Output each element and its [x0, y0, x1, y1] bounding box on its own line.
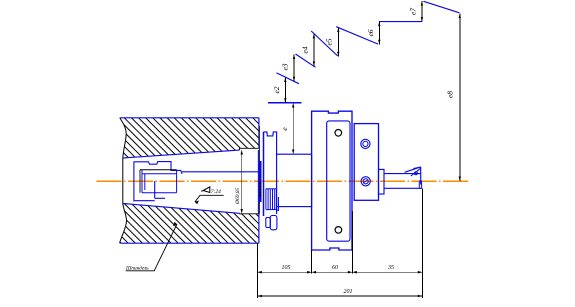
- shank inner top line with relief groove: [134, 162, 182, 174]
- taper 7:24 callout: [195, 187, 224, 204]
- diagonal step 4: [336, 27, 378, 44]
- extension line flange right: [351, 211, 353, 274]
- extension line shaft tip: [421, 189, 423, 299]
- main flange disk: [312, 111, 352, 250]
- cutter insert top edge: [413, 167, 420, 168]
- dimension total height: [446, 14, 461, 182]
- svg-text:7:24: 7:24: [211, 188, 221, 195]
- cutter insert hypotenuse: [411, 168, 421, 176]
- screw lower inner: [363, 179, 368, 184]
- drawbar lower step: [155, 197, 165, 199]
- housing top edge: [120, 117, 259, 119]
- bore step lower: [240, 212, 259, 215]
- screw upper inner: [363, 141, 368, 146]
- drawbar nut ribs: [266, 189, 277, 210]
- drawbar head bottom edge: [142, 192, 177, 194]
- drawbar head inner line: [142, 173, 177, 175]
- svg-text:35: 35: [387, 265, 394, 271]
- shaft bottom line: [384, 187, 421, 189]
- holder flange top face with V-groove: [264, 132, 277, 155]
- svg-text:60: 60: [332, 265, 338, 271]
- drawbar lower vertical: [154, 181, 156, 198]
- drawbar head inner vertical: [144, 174, 146, 190]
- drawbar head left edge: [139, 170, 141, 193]
- svg-text:e5: e5: [324, 38, 333, 45]
- svg-text:e7: e7: [409, 8, 418, 15]
- gauge diameter dimension: [235, 150, 243, 214]
- contact face thin line: [257, 150, 259, 214]
- dimension e5: [324, 28, 339, 57]
- holder flange left edge: [263, 132, 265, 216]
- centerline axis: [97, 180, 470, 182]
- chain dimension line: [257, 271, 422, 274]
- diagonal step 2: [296, 54, 316, 67]
- svg-text:e8: e8: [446, 91, 455, 98]
- dimension e: [280, 103, 294, 154]
- diagonal step 5: [424, 1, 460, 13]
- housing face line behind tool: [258, 126, 260, 214]
- dimension e4: [301, 34, 316, 66]
- tool shank end face: [133, 162, 135, 202]
- housing bottom edge: [120, 242, 259, 244]
- extension line housing face: [256, 244, 258, 299]
- dimension e3: [281, 55, 296, 82]
- flange face plate: [327, 121, 350, 241]
- drawbar stem top line: [182, 171, 259, 173]
- lower bore taper line: [122, 203, 239, 213]
- svg-text:e2: e2: [272, 86, 281, 93]
- svg-text:e3: e3: [281, 63, 290, 70]
- staircase baseline: [268, 102, 302, 104]
- cutter top diagonal: [405, 167, 421, 172]
- dimension e2: [272, 78, 287, 103]
- bore step upper: [240, 148, 259, 150]
- bolt hole upper: [335, 130, 342, 137]
- drawbar head left inner edge: [141, 170, 143, 193]
- shank inner bottom line: [134, 200, 155, 202]
- diagonal step 1: [277, 73, 299, 84]
- screw upper outer: [361, 139, 370, 148]
- upper bore taper line: [123, 150, 240, 158]
- holder neck body: [277, 154, 312, 206]
- spindle label with leader: [125, 222, 177, 272]
- grip dog left: [266, 218, 271, 228]
- dimension e7: [409, 1, 424, 22]
- holder flange lower right edge: [276, 207, 278, 214]
- step horizontal line: [379, 21, 422, 23]
- svg-text:105: 105: [282, 265, 291, 271]
- svg-text:e6: e6: [366, 29, 375, 36]
- shaft tip box: [419, 181, 421, 188]
- lower hatch region of spindle housing: [120, 203, 259, 243]
- shaft top line: [384, 173, 421, 175]
- housing left break edge: [120, 118, 127, 243]
- housing right face upper: [258, 118, 260, 149]
- screw lower slot: [364, 180, 367, 182]
- overall dimension line: [257, 295, 422, 298]
- neck key slot: [276, 197, 278, 210]
- cutter insert circle: [414, 172, 417, 175]
- screw lower outer: [361, 177, 370, 186]
- svg-text:e4: e4: [301, 46, 310, 53]
- contact face bold line: [259, 161, 261, 202]
- diagonal step 3: [311, 31, 338, 56]
- arbor hub: [379, 169, 385, 194]
- upper hatch region of spindle housing: [120, 118, 259, 158]
- grip dog right: [270, 216, 277, 230]
- bolt hole lower: [335, 227, 342, 234]
- svg-text:Ø69,85: Ø69,85: [235, 187, 241, 205]
- drawbar head right edge: [176, 170, 178, 193]
- dimension e6: [366, 22, 381, 45]
- drawbar head top edge: [140, 169, 177, 171]
- extension line flange left: [311, 250, 313, 274]
- screw block: [354, 124, 378, 201]
- svg-text:201: 201: [344, 289, 353, 295]
- spline dashes: [260, 184, 262, 196]
- cutter front face: [420, 167, 422, 185]
- housing right face lower: [258, 214, 260, 243]
